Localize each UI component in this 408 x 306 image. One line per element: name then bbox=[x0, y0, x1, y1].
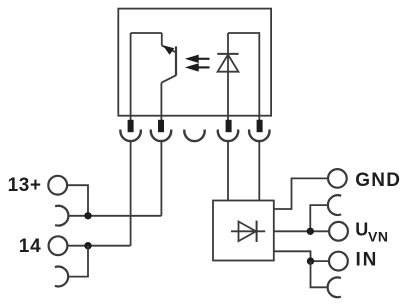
wire terminal2 down to 13+ line bbox=[160, 141, 162, 216]
pin 3 bbox=[226, 120, 232, 132]
wire 13+ to junction bbox=[67, 185, 88, 216]
svg-text:IN: IN bbox=[356, 249, 379, 270]
svg-text:13+: 13+ bbox=[8, 175, 42, 196]
wire bridge to terminal2 line bbox=[68, 215, 161, 217]
terminal socket 4 bbox=[218, 130, 238, 142]
wire bridge to UVN line bbox=[310, 205, 328, 231]
bridge contact under GND bbox=[328, 195, 341, 215]
wire junction down to bridge bbox=[68, 246, 88, 277]
wire emitter drop bbox=[161, 33, 163, 46]
junction UVN bbox=[307, 228, 314, 235]
pin 1 bbox=[128, 120, 134, 132]
diode D1 cathode bar bbox=[217, 53, 238, 55]
diode D2 bar bbox=[256, 221, 258, 242]
terminal socket 1 bbox=[120, 130, 140, 142]
pin 2 bbox=[158, 120, 164, 132]
terminal socket 3 bbox=[184, 130, 204, 142]
transistor Q1 emitter arrow bbox=[163, 45, 175, 55]
terminal circle IN bbox=[329, 252, 348, 271]
terminal socket 2 bbox=[151, 130, 171, 142]
bridge contact under 14 bbox=[55, 267, 68, 287]
diode D2 triangle bbox=[239, 222, 257, 242]
light arrow 2 bbox=[185, 63, 210, 71]
terminal circle 13+ bbox=[48, 176, 67, 195]
terminal circle 14 bbox=[49, 236, 68, 255]
wire pin1 top horizontal bbox=[131, 32, 162, 34]
optocoupler module outline bbox=[118, 9, 271, 116]
transistor Q1 collector diagonal bbox=[161, 75, 176, 82]
light arrow 1 bbox=[185, 55, 210, 63]
svg-text:U: U bbox=[355, 219, 368, 239]
junction 13+ bbox=[84, 212, 91, 219]
terminal circle UVN bbox=[329, 222, 348, 241]
svg-text:14: 14 bbox=[19, 236, 42, 257]
pin 4 bbox=[257, 120, 263, 132]
diode D2 wire bbox=[231, 230, 265, 232]
terminal socket 5 bbox=[249, 130, 269, 142]
wire collector to pin2 bbox=[160, 83, 162, 132]
diode D1 triangle bbox=[218, 55, 239, 72]
wire terminal4 down to supply box bbox=[227, 141, 229, 201]
junction 14 bbox=[84, 242, 91, 249]
transistor Q1 emitter diagonal bbox=[162, 46, 176, 53]
wire UVN bbox=[274, 230, 329, 232]
junction IN bbox=[307, 257, 314, 264]
wire terminal5 down to supply box bbox=[258, 141, 260, 201]
wire terminal1 down to 14 line bbox=[130, 141, 132, 246]
bridge contact under 13+ bbox=[55, 206, 68, 226]
wire IN bbox=[274, 251, 329, 261]
diode D1 (LED) vertical wire bbox=[227, 33, 229, 132]
transistor Q1 base bar bbox=[175, 46, 177, 75]
bridge contact under IN bbox=[328, 277, 341, 297]
terminal circle GND bbox=[328, 169, 347, 188]
wire LED top bracket bbox=[228, 33, 259, 132]
supply module box U1 bbox=[213, 201, 274, 261]
wire GND bbox=[274, 178, 328, 209]
wire pin1 vertical bbox=[130, 33, 132, 132]
wire 14 to terminal1 line bbox=[67, 245, 130, 247]
svg-text:VN: VN bbox=[368, 229, 388, 245]
svg-text:GND: GND bbox=[355, 170, 401, 191]
wire IN junction down to bridge bbox=[311, 261, 329, 287]
